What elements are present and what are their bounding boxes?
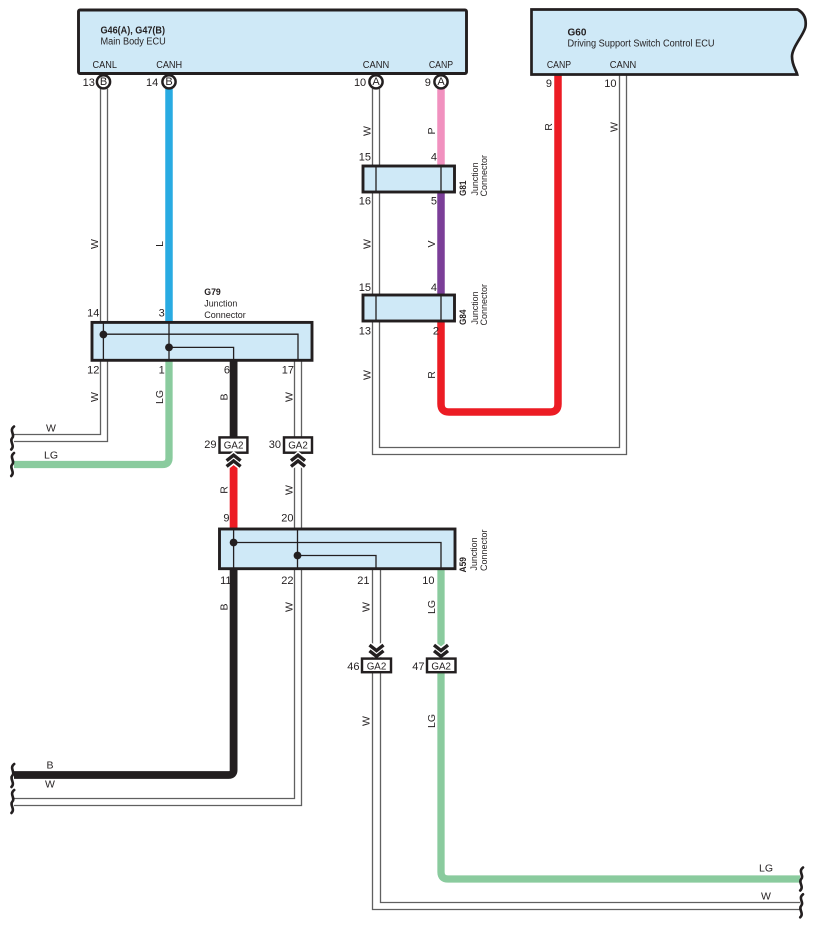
svg-text:W: W xyxy=(362,370,374,380)
svg-text:CANP: CANP xyxy=(429,60,453,71)
svg-text:G60: G60 xyxy=(568,27,587,38)
connector GA2 29 box xyxy=(204,437,247,452)
svg-text:CANL: CANL xyxy=(92,60,117,71)
junction dot G79 upper bus xyxy=(100,331,108,339)
chevrons below GA2 30 (pointing up) xyxy=(291,455,305,466)
junction connector G81 box xyxy=(363,166,455,192)
svg-text:3: 3 xyxy=(159,307,165,319)
svg-text:G81: G81 xyxy=(458,180,469,196)
G79 label xyxy=(204,287,246,321)
svg-text:G46(A), G47(B): G46(A), G47(B) xyxy=(101,26,166,37)
wire B (black) from G79 pin 6 to connector GA2 29 xyxy=(230,360,238,439)
svg-text:W: W xyxy=(362,126,374,136)
svg-text:Driving Support Switch Control: Driving Support Switch Control ECU xyxy=(568,38,715,49)
svg-text:A: A xyxy=(437,76,445,88)
wire W from A59 pin 21 through GA2 46 to right edge xyxy=(373,569,801,910)
chevrons above GA2 47 (pointing down) xyxy=(434,645,448,656)
svg-text:W: W xyxy=(609,122,621,132)
Main Body ECU box G46(A),G47(B) xyxy=(79,10,467,74)
wire W CANN U-shape from Main Body ECU pin 10 through G81,G84 to G60 CANN pin 10 xyxy=(373,75,627,455)
svg-text:CANP: CANP xyxy=(547,60,571,71)
chevrons above GA2 46 (pointing down) xyxy=(370,645,384,656)
svg-text:4: 4 xyxy=(431,282,437,294)
wire W from G79 pin 17 through GA2 30 to A59 pin 20 xyxy=(295,360,302,530)
svg-text:R: R xyxy=(543,123,555,131)
svg-text:W: W xyxy=(89,392,101,402)
chevrons below GA2 29 (pointing up) xyxy=(227,455,241,466)
wire LG from A59 pin 10 through GA2 47 to right edge xyxy=(441,569,800,880)
junction dot G79 lower bus xyxy=(165,344,173,352)
svg-text:14: 14 xyxy=(146,77,158,89)
A59 label (rotated) xyxy=(458,530,490,573)
svg-text:20: 20 xyxy=(281,513,293,525)
connector GA2 47 box xyxy=(412,659,455,673)
svg-text:2: 2 xyxy=(433,326,439,338)
svg-text:29: 29 xyxy=(204,439,216,451)
junction connector G79 box xyxy=(92,322,312,360)
wire W from A59 pin 22 to left edge xyxy=(14,569,302,806)
svg-text:16: 16 xyxy=(359,196,371,208)
svg-text:G84: G84 xyxy=(458,309,469,325)
svg-text:Connector: Connector xyxy=(204,310,246,321)
svg-text:46: 46 xyxy=(347,661,359,673)
svg-text:12: 12 xyxy=(87,364,99,376)
squiggle break symbol right bottom W wire xyxy=(800,894,803,917)
svg-text:10: 10 xyxy=(604,78,616,90)
wire V (violet) from G81 pin 5 to G84 pin 4 xyxy=(437,191,445,298)
svg-text:R: R xyxy=(219,486,231,494)
svg-text:9: 9 xyxy=(425,77,431,89)
connector GA2 30 box xyxy=(269,437,312,452)
svg-text:1: 1 xyxy=(159,364,165,376)
svg-text:9: 9 xyxy=(223,513,229,525)
svg-text:13: 13 xyxy=(359,326,371,338)
svg-text:B: B xyxy=(219,393,231,400)
junction dot A59 lower bus xyxy=(294,552,302,560)
wire LG (light green) from G79 pin 1 to left edge xyxy=(14,360,169,465)
svg-text:11: 11 xyxy=(220,575,231,587)
connector GA2 46 box xyxy=(347,659,391,673)
svg-text:LG: LG xyxy=(426,600,438,614)
svg-text:A: A xyxy=(372,76,380,88)
svg-text:CANN: CANN xyxy=(363,60,390,71)
G81 label (rotated) xyxy=(458,155,490,197)
svg-text:17: 17 xyxy=(282,364,294,376)
svg-text:Connector: Connector xyxy=(479,155,490,197)
svg-text:W: W xyxy=(284,485,296,495)
svg-text:10: 10 xyxy=(354,77,366,89)
svg-text:22: 22 xyxy=(281,575,293,587)
svg-text:A59: A59 xyxy=(458,557,469,573)
squiggle break symbol left bottom W wire xyxy=(11,790,14,813)
wire B (black) from A59 pin 11 to left edge xyxy=(14,569,234,776)
squiggle break symbol right LG wire xyxy=(800,868,803,891)
svg-text:V: V xyxy=(426,240,438,247)
wire W CANL from Main Body ECU pin 13 to G79 pin 14 xyxy=(101,89,108,323)
svg-text:W: W xyxy=(361,716,373,726)
junction connector A59 box xyxy=(220,529,456,569)
pin 13 circle B of Main Body ECU xyxy=(83,75,110,89)
svg-text:13: 13 xyxy=(83,77,95,89)
svg-text:W: W xyxy=(362,239,374,249)
svg-text:B: B xyxy=(100,76,107,88)
svg-text:W: W xyxy=(46,423,56,435)
svg-text:GA2: GA2 xyxy=(431,662,451,673)
svg-text:B: B xyxy=(219,603,231,610)
pin 10 circle A of Main Body ECU xyxy=(354,75,383,89)
pin 14 circle B of Main Body ECU xyxy=(146,75,176,89)
svg-text:L: L xyxy=(154,241,166,247)
svg-text:W: W xyxy=(89,239,101,249)
squiggle break symbol left W wire xyxy=(11,427,14,450)
svg-text:GA2: GA2 xyxy=(224,440,244,451)
svg-text:GA2: GA2 xyxy=(288,440,308,451)
wire W from G79 pin 12 to left edge xyxy=(14,360,108,442)
svg-text:P: P xyxy=(426,127,438,134)
svg-text:LG: LG xyxy=(759,863,773,875)
svg-text:10: 10 xyxy=(422,575,434,587)
junction connector G84 box xyxy=(363,295,455,321)
Driving Support Switch Control ECU box G60 with torn right edge xyxy=(532,10,806,75)
svg-text:9: 9 xyxy=(546,78,552,90)
wire L (blue) CANH from Main Body ECU pin 14 to G79 pin 3 xyxy=(165,89,173,323)
svg-text:W: W xyxy=(284,392,296,402)
svg-text:W: W xyxy=(761,891,771,903)
svg-text:R: R xyxy=(426,371,438,379)
svg-text:6: 6 xyxy=(224,364,230,376)
svg-text:15: 15 xyxy=(359,282,371,294)
squiggle break symbol left B wire xyxy=(11,764,14,787)
svg-text:21: 21 xyxy=(357,575,369,587)
svg-text:5: 5 xyxy=(431,196,437,208)
svg-text:Connector: Connector xyxy=(479,284,490,326)
wire R (red) from GA2 29 to A59 pin 9 xyxy=(230,456,238,530)
svg-text:14: 14 xyxy=(87,307,99,319)
svg-text:47: 47 xyxy=(412,661,424,673)
svg-text:Junction: Junction xyxy=(204,299,237,310)
svg-text:W: W xyxy=(361,602,373,612)
wire R (red) from G84 pin 2 to G60 CANP pin 9 xyxy=(441,75,558,413)
svg-text:LG: LG xyxy=(426,714,438,728)
svg-text:LG: LG xyxy=(154,390,166,404)
svg-text:GA2: GA2 xyxy=(367,662,387,673)
svg-text:Main Body ECU: Main Body ECU xyxy=(101,37,166,48)
squiggle break symbol left LG wire xyxy=(11,453,14,476)
svg-text:Connector: Connector xyxy=(479,530,490,572)
svg-text:W: W xyxy=(45,779,55,791)
G84 label (rotated) xyxy=(458,284,490,326)
wire P (pink) CANP from Main Body ECU pin 9 to G81 pin 4 xyxy=(437,89,445,168)
svg-text:W: W xyxy=(284,602,296,612)
svg-text:15: 15 xyxy=(359,152,371,164)
svg-text:30: 30 xyxy=(269,439,281,451)
svg-text:CANH: CANH xyxy=(156,60,182,71)
svg-text:B: B xyxy=(165,76,172,88)
svg-text:4: 4 xyxy=(431,152,437,164)
svg-text:B: B xyxy=(46,760,53,772)
junction dot A59 upper bus xyxy=(230,539,238,547)
pin 9 circle A of Main Body ECU xyxy=(425,75,448,89)
svg-text:G79: G79 xyxy=(204,287,221,298)
svg-text:CANN: CANN xyxy=(610,60,637,71)
svg-text:LG: LG xyxy=(44,450,58,462)
